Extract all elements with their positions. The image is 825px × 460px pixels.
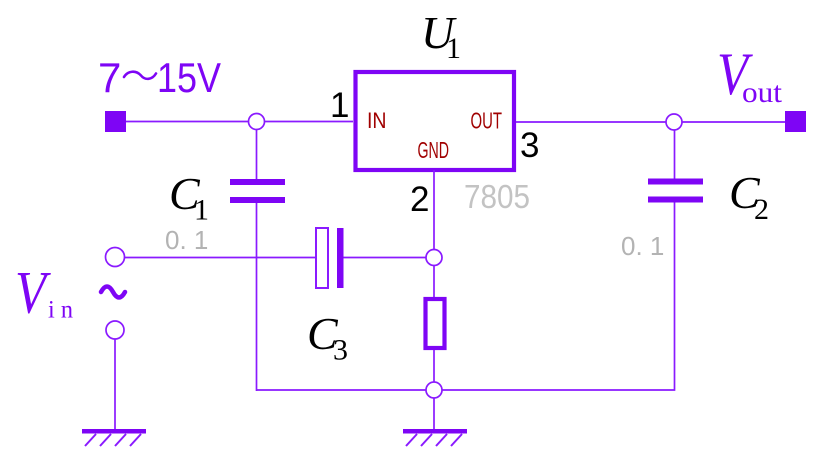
node C junction [426, 250, 442, 266]
svg-text:0. 1: 0. 1 [165, 225, 208, 255]
wire C3 to node C [344, 257, 427, 259]
capacitor C3 polarized [316, 228, 328, 288]
svg-text:1: 1 [330, 86, 349, 125]
svg-text:GND: GND [418, 137, 450, 163]
wire node A to pin 1 [265, 121, 354, 123]
svg-text:OUT: OUT [471, 108, 503, 134]
svg-text:1: 1 [446, 32, 461, 65]
svg-text:15V: 15V [157, 54, 221, 101]
wire node D to ground [433, 398, 435, 430]
wire C1 down to bottom rail [256, 203, 258, 391]
op-amp U1 regulator box [356, 72, 515, 170]
wire resistor to node D [433, 350, 435, 382]
svg-text:1: 1 [194, 194, 209, 227]
ground left [82, 429, 146, 434]
wire pin3 to node B [516, 121, 666, 123]
wire node B to output terminal [682, 121, 786, 123]
source bottom terminal circle [106, 321, 124, 339]
svg-text:V: V [15, 260, 51, 326]
svg-text:7: 7 [98, 54, 121, 101]
node D junction [426, 382, 442, 398]
wire source to C3 [125, 257, 317, 259]
wire node A down to C1 [256, 130, 258, 180]
node A junction [249, 114, 265, 130]
svg-text:2: 2 [410, 180, 429, 219]
source top terminal circle [106, 248, 125, 267]
node B junction [666, 114, 682, 130]
input terminal pad [105, 111, 126, 132]
svg-text:2: 2 [754, 193, 769, 226]
capacitor C1 [230, 179, 285, 185]
wire U1 GND pin down to node C [433, 170, 435, 250]
wire source bottom to ground [114, 339, 116, 430]
svg-text:0. 1: 0. 1 [621, 231, 664, 261]
svg-text:3: 3 [333, 334, 348, 367]
svg-text:out: out [742, 76, 783, 109]
capacitor C2 [648, 179, 703, 185]
svg-text:7805: 7805 [464, 178, 530, 215]
ground center [403, 429, 467, 434]
svg-text:IN: IN [367, 108, 387, 133]
bottom rail right segment up to C2 [442, 202, 675, 390]
svg-text:3: 3 [520, 126, 539, 165]
wire node B down to C2 [674, 130, 676, 179]
output terminal pad [785, 111, 806, 132]
wire node C to resistor [433, 266, 435, 298]
wire terminal to node A [126, 121, 248, 123]
svg-text:i n: i n [48, 297, 73, 324]
AC source tilde [101, 287, 125, 298]
resistor [426, 299, 445, 348]
bottom rail left segment [257, 389, 427, 391]
